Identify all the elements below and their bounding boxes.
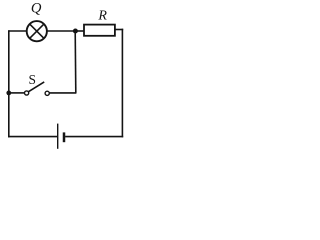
battery short thick plate (negative) [63,132,66,142]
wire: junction B to switch left terminal [9,92,25,94]
svg-text:R: R [97,9,107,24]
junction node B (dot) [6,91,11,96]
switch S (terminals and lever) [25,82,50,96]
wire: lamp to junction node [47,30,76,32]
junction node A (dot) [73,29,78,34]
wire: right vertical [121,29,123,138]
battery long thin plate (positive) [57,124,59,149]
svg-text:S: S [28,72,35,87]
lamp Q (circle with X) [27,21,47,41]
wire: bottom-right from battery to right corner [65,136,123,138]
wire: switch right terminal to middle vertical [49,92,76,94]
resistor R (rectangle) [84,25,115,36]
wire: bottom-left from left corner to battery [8,136,58,138]
svg-text:Q: Q [31,0,42,16]
wire: resistor to top-right corner [115,29,123,31]
wire: top-left segment from left corner to lamp [9,30,27,32]
wire: left vertical [8,30,10,137]
wire: junction to resistor [75,30,84,32]
wire: middle vertical from junction A down to switch branch [74,31,77,93]
